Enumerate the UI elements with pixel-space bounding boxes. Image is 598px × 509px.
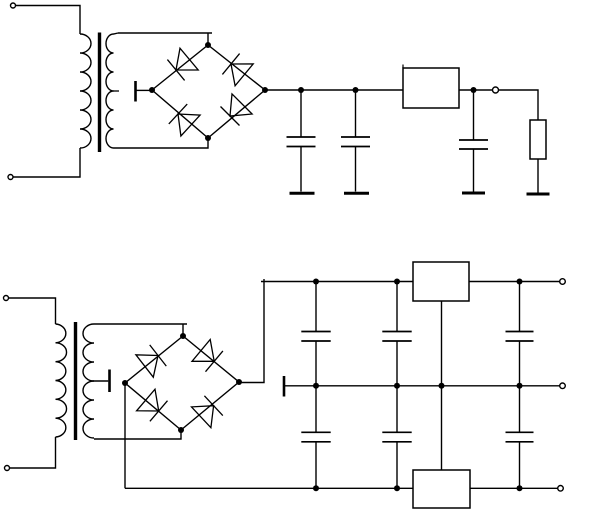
wire positive (top) rail xyxy=(264,281,560,283)
capacitor C5 xyxy=(301,386,330,489)
bridge B1 arm wires xyxy=(152,45,265,138)
wire U1 output xyxy=(459,89,493,91)
capacitor C6 xyxy=(382,282,411,386)
node C4/top rail xyxy=(313,279,319,285)
wire J5 to T2 primary bottom xyxy=(10,437,56,468)
diode D1 xyxy=(167,48,198,80)
wire common (middle) rail xyxy=(285,385,560,387)
center-tap bar marker (T2) xyxy=(108,370,111,393)
wire bridge left node down to negative rail xyxy=(124,383,126,488)
ground (C3) xyxy=(462,192,485,195)
terminal J7 (common output) xyxy=(560,383,566,389)
T1 secondary center-tap stub xyxy=(113,90,119,92)
wire T1 secondary top to bridge xyxy=(118,33,212,45)
node regulator pins/common rail xyxy=(439,383,445,389)
transformer T2 secondary winding xyxy=(83,324,94,438)
node C5/bottom rail xyxy=(313,485,319,491)
regulator U1 xyxy=(403,65,459,109)
terminal J4 (AC input top) xyxy=(4,296,9,301)
node bridge B2 right xyxy=(236,379,242,385)
regulator U3 (negative) xyxy=(413,470,470,508)
wire R1 to ground xyxy=(537,159,539,193)
terminal J6 (+V output) xyxy=(560,279,566,285)
wire J4 to T2 primary top xyxy=(9,298,56,324)
ground (R1) xyxy=(527,193,550,196)
node bridge B1 left xyxy=(149,87,155,93)
node C6-C7/common rail xyxy=(394,383,400,389)
wire bridge right node up to positive rail xyxy=(239,279,264,383)
transformer T2 primary winding xyxy=(56,324,67,437)
node C8-C9/common rail xyxy=(517,383,523,389)
capacitor C1 xyxy=(287,90,316,192)
wire DC rail bridge to regulator U1 xyxy=(265,89,403,91)
capacitor C4 xyxy=(301,282,330,386)
terminal J8 (-V output) xyxy=(558,486,564,492)
node C7/bottom rail xyxy=(394,485,400,491)
node C1 junction xyxy=(298,87,304,93)
capacitor C3 xyxy=(459,90,488,192)
capacitor C2 xyxy=(341,90,370,192)
terminal J2 (AC input bottom) xyxy=(8,175,13,180)
transformer T1 core xyxy=(98,33,101,153)
wire T2 secondary top to bridge xyxy=(94,324,187,336)
node C6/top rail xyxy=(394,279,400,285)
capacitor C7 xyxy=(382,386,411,489)
node bridge B2 bottom xyxy=(178,427,184,433)
node bridge B1 bottom xyxy=(205,135,211,141)
node bridge B1 top xyxy=(205,42,211,48)
node C2 junction xyxy=(353,87,359,93)
terminal J1 (AC input top) xyxy=(11,3,16,8)
center-tap bar marker xyxy=(134,81,137,102)
diode D2 xyxy=(222,54,253,86)
diode D4 xyxy=(221,94,253,126)
node C4-C5/common rail xyxy=(313,383,319,389)
T2 center-tap wire xyxy=(90,380,108,382)
ground (C2) xyxy=(344,192,369,195)
wire U3 ground pin xyxy=(441,386,443,470)
node bridge B2 left xyxy=(122,380,128,386)
diode D7 xyxy=(137,389,168,421)
wire negative (bottom) rail xyxy=(125,487,558,489)
diode D3 xyxy=(169,104,200,136)
node C8/top rail xyxy=(517,279,523,285)
capacitor C9 xyxy=(506,386,534,489)
regulator U2 (positive) xyxy=(413,262,469,301)
wire bar to bridge left node xyxy=(136,89,152,91)
wire T2 secondary bottom to bridge xyxy=(94,430,181,439)
ground (C1) xyxy=(290,192,315,195)
node bridge B2 top xyxy=(180,333,186,339)
wire J3 to load R1 xyxy=(499,90,539,120)
capacitor C8 xyxy=(506,282,534,386)
transformer T1 secondary winding xyxy=(106,33,118,148)
wire T1 secondary bottom to bridge xyxy=(118,138,208,148)
wire U2 ground pin xyxy=(441,301,443,386)
center-tap bar marker (common rail) xyxy=(283,376,286,397)
node U1 output junction xyxy=(471,87,477,93)
wire J2 to T1 primary bottom xyxy=(13,148,80,177)
node bridge B1 right xyxy=(262,87,268,93)
transformer T1 primary winding xyxy=(80,34,91,148)
terminal J5 (AC input bottom) xyxy=(5,466,10,471)
terminal J3 (DC output) xyxy=(493,87,499,93)
diode D6 xyxy=(192,340,223,372)
node C9/bottom rail xyxy=(517,485,523,491)
bridge B2 arm wires xyxy=(125,336,239,430)
resistor R1 (load) xyxy=(530,120,546,159)
wire J1 to T1 primary top xyxy=(16,6,81,35)
diode D8 xyxy=(192,396,223,428)
diode D5 xyxy=(136,345,166,377)
transformer T2 core xyxy=(74,322,77,440)
